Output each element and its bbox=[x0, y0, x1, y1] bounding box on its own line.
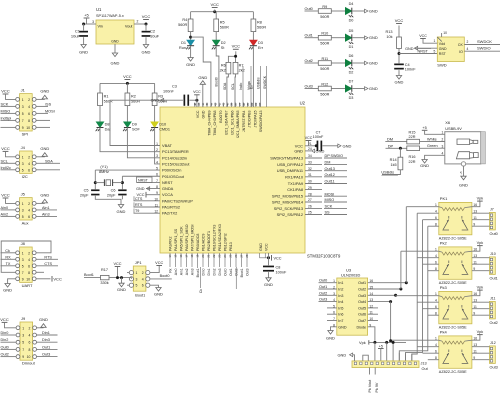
svg-text:4: 4 bbox=[28, 162, 30, 166]
svg-text:J11: J11 bbox=[490, 297, 496, 301]
svg-text:Din1: Din1 bbox=[42, 331, 50, 335]
svg-text:3: 3 bbox=[22, 105, 24, 109]
svg-text:SWDIO/TMS/PA13: SWDIO/TMS/PA13 bbox=[270, 156, 303, 161]
svg-text:TX: TX bbox=[6, 262, 11, 266]
svg-text:SWDIO: SWDIO bbox=[331, 154, 344, 158]
svg-text:34: 34 bbox=[308, 154, 312, 158]
svg-text:5: 5 bbox=[136, 284, 138, 288]
svg-text:J7: J7 bbox=[490, 208, 494, 212]
svg-text:24: 24 bbox=[308, 147, 312, 151]
svg-text:100nF: 100nF bbox=[276, 271, 287, 275]
svg-text:RTS: RTS bbox=[135, 203, 143, 207]
svg-text:Vpk: Vpk bbox=[359, 340, 366, 345]
svg-text:GND: GND bbox=[405, 47, 414, 51]
svg-text:10: 10 bbox=[26, 126, 30, 130]
svg-text:Ain0: Ain0 bbox=[1, 206, 9, 210]
svg-text:UART: UART bbox=[22, 283, 33, 288]
svg-text:GND: GND bbox=[198, 75, 207, 80]
svg-text:5: 5 bbox=[433, 50, 435, 54]
svg-text:19: 19 bbox=[196, 254, 200, 258]
svg-text:SDA: SDA bbox=[45, 159, 53, 163]
svg-text:2: 2 bbox=[442, 138, 444, 142]
svg-text:In4: In4 bbox=[338, 300, 343, 304]
svg-text:6: 6 bbox=[28, 112, 30, 116]
svg-text:3: 3 bbox=[22, 208, 24, 212]
svg-text:White: White bbox=[427, 137, 437, 141]
svg-text:GND: GND bbox=[338, 352, 347, 357]
svg-text:8MHz: 8MHz bbox=[99, 170, 109, 174]
svg-text:Pk2: Pk2 bbox=[440, 241, 448, 246]
svg-text:VCC: VCC bbox=[1, 192, 10, 197]
svg-text:Out0: Out0 bbox=[223, 268, 227, 275]
svg-text:I2C1_SCL/PB6: I2C1_SCL/PB6 bbox=[230, 110, 234, 134]
svg-text:Err: Err bbox=[249, 84, 253, 90]
svg-text:10uF: 10uF bbox=[71, 34, 81, 39]
svg-text:4: 4 bbox=[442, 152, 444, 156]
svg-text:PA7/SPI1_MOSI: PA7/SPI1_MOSI bbox=[191, 225, 195, 252]
svg-text:GND: GND bbox=[294, 148, 303, 153]
svg-text:Vpk: Vpk bbox=[477, 330, 484, 334]
svg-text:R9: R9 bbox=[322, 5, 327, 9]
svg-text:MISO: MISO bbox=[1, 109, 11, 113]
svg-text:GND: GND bbox=[117, 287, 126, 292]
svg-text:6: 6 bbox=[28, 215, 30, 219]
svg-text:25: 25 bbox=[229, 254, 233, 258]
svg-text:SCK: SCK bbox=[1, 102, 9, 106]
svg-text:10uF: 10uF bbox=[150, 34, 160, 39]
svg-text:SCL: SCL bbox=[231, 83, 235, 90]
svg-text:Vdd: Vdd bbox=[439, 42, 445, 46]
svg-text:4: 4 bbox=[333, 298, 335, 302]
svg-text:2: 2 bbox=[28, 155, 30, 159]
svg-text:Pk Vout: Pk Vout bbox=[368, 380, 372, 393]
svg-text:GND: GND bbox=[369, 35, 378, 40]
svg-text:SDA: SDA bbox=[223, 82, 227, 90]
svg-text:Out1: Out1 bbox=[229, 268, 233, 275]
svg-text:D6: D6 bbox=[349, 54, 354, 58]
svg-text:14: 14 bbox=[168, 254, 172, 258]
svg-text:3: 3 bbox=[22, 334, 24, 338]
svg-text:6: 6 bbox=[333, 311, 335, 315]
svg-text:MOSI: MOSI bbox=[45, 109, 55, 113]
svg-text:Out3: Out3 bbox=[42, 353, 50, 357]
svg-text:VCC: VCC bbox=[193, 90, 201, 94]
svg-text:1: 1 bbox=[22, 326, 24, 330]
svg-text:SWDIO: SWDIO bbox=[477, 46, 491, 51]
svg-text:D2: D2 bbox=[221, 41, 226, 45]
svg-text:D7: D7 bbox=[349, 80, 354, 84]
svg-text:1: 1 bbox=[22, 98, 24, 102]
svg-text:TX1/PA9: TX1/PA9 bbox=[288, 181, 303, 186]
svg-text:P01/OSCout: P01/OSCout bbox=[162, 174, 185, 179]
svg-text:GND: GND bbox=[439, 47, 447, 51]
svg-text:GND: GND bbox=[369, 86, 378, 91]
svg-text:ULN2003D: ULN2003D bbox=[341, 273, 360, 278]
svg-text:GND: GND bbox=[151, 99, 160, 103]
svg-text:RX1/PA10: RX1/PA10 bbox=[285, 174, 304, 179]
svg-text:NRST: NRST bbox=[138, 178, 149, 182]
svg-text:+5: +5 bbox=[422, 126, 426, 130]
svg-text:16: 16 bbox=[179, 254, 183, 258]
svg-text:30: 30 bbox=[308, 180, 312, 184]
svg-text:VCC: VCC bbox=[265, 243, 269, 251]
svg-text:31: 31 bbox=[308, 173, 312, 177]
svg-text:4: 4 bbox=[28, 258, 30, 262]
svg-text:R10: R10 bbox=[321, 32, 328, 36]
svg-text:D5: D5 bbox=[349, 29, 354, 33]
svg-text:IO: IO bbox=[459, 50, 463, 54]
svg-text:BOOT0: BOOT0 bbox=[219, 111, 223, 123]
svg-text:5: 5 bbox=[22, 215, 24, 219]
svg-text:SWDCK: SWDCK bbox=[263, 75, 267, 89]
svg-text:Out3: Out3 bbox=[305, 84, 313, 88]
svg-text:In7: In7 bbox=[338, 319, 343, 323]
svg-text:Out2: Out2 bbox=[358, 288, 366, 292]
svg-text:USBdis: USBdis bbox=[381, 170, 394, 174]
svg-text:1: 1 bbox=[433, 39, 435, 43]
svg-text:3: 3 bbox=[136, 277, 138, 281]
svg-text:SCL: SCL bbox=[1, 159, 8, 163]
svg-text:Din3: Din3 bbox=[42, 338, 50, 342]
svg-text:100nF: 100nF bbox=[313, 135, 324, 139]
svg-text:VCC: VCC bbox=[53, 276, 62, 281]
svg-text:GND: GND bbox=[343, 143, 352, 148]
svg-text:24: 24 bbox=[223, 254, 227, 258]
svg-text:+5: +5 bbox=[459, 171, 463, 175]
svg-text:PC14/Osc32in: PC14/Osc32in bbox=[162, 155, 187, 160]
svg-text:10k: 10k bbox=[386, 35, 392, 39]
svg-text:PA0/CTS2/WKUP: PA0/CTS2/WKUP bbox=[162, 198, 193, 203]
svg-text:Out: Out bbox=[422, 367, 429, 371]
svg-text:/SS: /SS bbox=[45, 102, 52, 106]
svg-text:D1: D1 bbox=[349, 45, 354, 49]
svg-text:CTS: CTS bbox=[44, 262, 52, 266]
svg-text:Din2: Din2 bbox=[1, 338, 9, 342]
svg-text:29: 29 bbox=[308, 186, 312, 190]
svg-text:Out0: Out0 bbox=[305, 7, 313, 11]
svg-text:2: 2 bbox=[142, 271, 144, 275]
svg-text:R14: R14 bbox=[390, 158, 397, 162]
svg-text:GND: GND bbox=[142, 50, 151, 55]
svg-text:PB12/SPI2: PB12/SPI2 bbox=[224, 233, 228, 251]
svg-text:Ain3: Ain3 bbox=[190, 268, 194, 275]
svg-text:SPI2_SS/PB12: SPI2_SS/PB12 bbox=[277, 212, 303, 217]
svg-text:1k5: 1k5 bbox=[390, 163, 396, 167]
svg-text:Out3: Out3 bbox=[319, 298, 327, 302]
svg-text:IndSpi: IndSpi bbox=[1, 116, 12, 120]
svg-text:Out1: Out1 bbox=[42, 345, 50, 349]
svg-text:D1: D1 bbox=[181, 41, 186, 45]
svg-text:PB13: PB13 bbox=[229, 242, 233, 251]
svg-text:GND: GND bbox=[154, 291, 163, 296]
svg-text:Boot0: Boot0 bbox=[215, 77, 219, 86]
svg-text:Out1: Out1 bbox=[490, 276, 498, 280]
svg-text:PB2/BOOT1: PB2/BOOT1 bbox=[207, 231, 211, 251]
svg-text:JTDI/PA15: JTDI/PA15 bbox=[253, 110, 257, 127]
svg-text:PA3/RX2: PA3/RX2 bbox=[169, 236, 173, 251]
svg-text:GND: GND bbox=[111, 61, 120, 66]
svg-text:VCC: VCC bbox=[0, 317, 9, 322]
svg-text:32: 32 bbox=[258, 102, 262, 106]
svg-text:Vpk: Vpk bbox=[477, 197, 484, 201]
svg-text:VCC: VCC bbox=[419, 34, 427, 38]
svg-text:6: 6 bbox=[142, 284, 144, 288]
svg-text:2: 2 bbox=[28, 98, 30, 102]
svg-text:DM: DM bbox=[387, 137, 393, 142]
svg-text:VCC: VCC bbox=[113, 262, 121, 266]
svg-text:J13: J13 bbox=[421, 362, 427, 366]
svg-text:C6: C6 bbox=[111, 189, 116, 193]
svg-text:C3: C3 bbox=[172, 85, 177, 89]
svg-text:VCC: VCC bbox=[274, 257, 282, 261]
svg-text:Boot1: Boot1 bbox=[84, 273, 94, 277]
svg-text:PA2/TX2: PA2/TX2 bbox=[162, 211, 177, 216]
svg-text:R17: R17 bbox=[101, 268, 108, 272]
svg-text:VCC: VCC bbox=[1, 88, 10, 93]
svg-text:Din/out: Din/out bbox=[22, 361, 36, 366]
svg-text:CMD1: CMD1 bbox=[159, 128, 170, 132]
svg-text:3: 3 bbox=[442, 144, 444, 148]
svg-text:R5: R5 bbox=[220, 21, 225, 25]
svg-text:7: 7 bbox=[22, 348, 24, 352]
svg-text:D9: D9 bbox=[132, 123, 137, 127]
svg-text:R12: R12 bbox=[321, 82, 328, 86]
svg-text:Out1: Out1 bbox=[358, 281, 366, 285]
svg-text:2: 2 bbox=[28, 202, 30, 206]
svg-text:2: 2 bbox=[137, 20, 139, 24]
svg-text:330k: 330k bbox=[100, 281, 108, 285]
svg-text:(Y1): (Y1) bbox=[100, 165, 108, 169]
svg-text:CK1/PA8: CK1/PA8 bbox=[287, 187, 303, 192]
svg-text:27: 27 bbox=[308, 198, 312, 202]
svg-text:J10: J10 bbox=[490, 252, 496, 256]
svg-text:Din2: Din2 bbox=[212, 268, 216, 275]
svg-text:8: 8 bbox=[28, 119, 30, 123]
svg-text:26: 26 bbox=[234, 254, 238, 258]
svg-text:GNDA: GNDA bbox=[162, 186, 174, 191]
svg-text:R11: R11 bbox=[321, 57, 328, 61]
svg-text:22R: 22R bbox=[409, 135, 416, 139]
svg-text:3: 3 bbox=[333, 292, 335, 296]
svg-text:GND: GND bbox=[459, 183, 468, 188]
svg-text:6: 6 bbox=[29, 341, 31, 345]
svg-text:Out2: Out2 bbox=[305, 59, 313, 63]
svg-text:+5: +5 bbox=[379, 344, 383, 348]
svg-text:Boot1: Boot1 bbox=[240, 268, 244, 277]
svg-text:R13: R13 bbox=[386, 30, 393, 34]
svg-text:1: 1 bbox=[22, 202, 24, 206]
svg-text:VCC: VCC bbox=[196, 110, 200, 118]
svg-text:GND: GND bbox=[117, 209, 126, 214]
svg-text:560R: 560R bbox=[320, 15, 329, 19]
svg-text:D0: D0 bbox=[349, 19, 354, 23]
svg-text:Out2: Out2 bbox=[1, 353, 9, 357]
svg-text:Ck: Ck bbox=[5, 249, 10, 253]
svg-text:Out6: Out6 bbox=[358, 313, 366, 317]
svg-text:23: 23 bbox=[218, 254, 222, 258]
svg-text:PA4/SPI1_SS: PA4/SPI1_SS bbox=[174, 228, 178, 251]
svg-text:VCC: VCC bbox=[123, 74, 132, 79]
svg-text:SPI2_MISO/PB14: SPI2_MISO/PB14 bbox=[272, 200, 304, 205]
svg-text:560R: 560R bbox=[320, 67, 329, 71]
svg-text:D2: D2 bbox=[349, 71, 354, 75]
svg-text:C4: C4 bbox=[405, 63, 410, 67]
svg-text:6: 6 bbox=[28, 168, 30, 172]
svg-text:USBdis: USBdis bbox=[257, 77, 261, 89]
svg-text:TIM4_CH3/PB8: TIM4_CH3/PB8 bbox=[213, 111, 217, 136]
svg-text:In5: In5 bbox=[338, 306, 343, 310]
svg-text:Din3: Din3 bbox=[218, 268, 222, 275]
svg-text:15: 15 bbox=[174, 254, 178, 258]
svg-text:28: 28 bbox=[308, 192, 312, 196]
svg-text:TIM4_CH4/PB9: TIM4_CH4/PB9 bbox=[207, 111, 211, 136]
svg-text:Indic: Indic bbox=[239, 82, 243, 90]
svg-text:GND: GND bbox=[136, 187, 145, 191]
svg-text:C5: C5 bbox=[84, 189, 89, 193]
svg-text:27: 27 bbox=[240, 254, 244, 258]
svg-text:RST: RST bbox=[439, 52, 447, 56]
svg-text:R16: R16 bbox=[409, 155, 416, 159]
svg-text:Vin: Vin bbox=[98, 25, 103, 29]
svg-text:X6: X6 bbox=[445, 120, 451, 125]
svg-text:Ain1: Ain1 bbox=[179, 268, 183, 275]
svg-text:5: 5 bbox=[333, 304, 335, 308]
svg-text:Ain1: Ain1 bbox=[42, 206, 50, 210]
svg-text:SWDIO/PA13: SWDIO/PA13 bbox=[259, 111, 263, 133]
svg-text:2k2: 2k2 bbox=[239, 68, 245, 72]
svg-text:SPI: SPI bbox=[22, 131, 28, 136]
svg-text:5: 5 bbox=[22, 341, 24, 345]
svg-text:Ain0: Ain0 bbox=[174, 268, 178, 275]
svg-text:Din0: Din0 bbox=[201, 268, 205, 275]
svg-text:33: 33 bbox=[308, 161, 312, 165]
svg-text:Run: Run bbox=[179, 46, 186, 50]
svg-text:GND: GND bbox=[316, 149, 325, 154]
svg-text:Out3: Out3 bbox=[245, 268, 249, 275]
svg-text:Out4: Out4 bbox=[358, 300, 366, 304]
svg-text:CK: CK bbox=[458, 43, 464, 47]
svg-text:20pF: 20pF bbox=[107, 194, 116, 198]
svg-text:GND: GND bbox=[40, 193, 49, 198]
svg-text:Out3: Out3 bbox=[358, 294, 366, 298]
svg-text:28: 28 bbox=[245, 254, 249, 258]
svg-text:8: 8 bbox=[28, 271, 30, 275]
svg-text:100nF: 100nF bbox=[405, 68, 416, 72]
svg-text:USB_DP/PA12: USB_DP/PA12 bbox=[277, 162, 303, 167]
svg-text:560R: 560R bbox=[220, 26, 229, 30]
svg-text:4: 4 bbox=[28, 208, 30, 212]
svg-text:I2C1_SMBA/PB5: I2C1_SMBA/PB5 bbox=[236, 110, 240, 138]
svg-text:6: 6 bbox=[28, 264, 30, 268]
svg-text:PB0/ADC8: PB0/ADC8 bbox=[196, 234, 200, 251]
svg-text:Vpk: Vpk bbox=[477, 241, 484, 245]
svg-text:GND: GND bbox=[39, 317, 48, 322]
svg-text:Ain2: Ain2 bbox=[1, 212, 9, 216]
svg-text:Out0: Out0 bbox=[1, 345, 9, 349]
svg-text:Out2: Out2 bbox=[319, 291, 327, 295]
svg-text:Pk3: Pk3 bbox=[440, 285, 448, 290]
svg-text:VCC: VCC bbox=[210, 2, 219, 7]
svg-text:Boot0: Boot0 bbox=[160, 274, 170, 278]
svg-text:In3: In3 bbox=[338, 294, 343, 298]
svg-text:RX: RX bbox=[5, 255, 11, 259]
svg-text:7: 7 bbox=[22, 271, 24, 275]
svg-text:4: 4 bbox=[29, 334, 31, 338]
svg-text:Out0: Out0 bbox=[490, 232, 498, 236]
svg-text:22R: 22R bbox=[409, 160, 416, 164]
svg-text:560R: 560R bbox=[320, 93, 329, 97]
svg-text:C7: C7 bbox=[316, 131, 321, 135]
svg-text:PA5/SPI1_SCK: PA5/SPI1_SCK bbox=[180, 226, 184, 251]
svg-text:20pF: 20pF bbox=[80, 194, 89, 198]
svg-text:Out0: Out0 bbox=[319, 279, 327, 283]
svg-text:T9: T9 bbox=[135, 209, 139, 213]
svg-text:R2: R2 bbox=[131, 95, 136, 99]
svg-text:R6: R6 bbox=[221, 63, 226, 67]
svg-text:VCC: VCC bbox=[142, 14, 151, 19]
svg-text:Ain3: Ain3 bbox=[42, 212, 50, 216]
svg-text:SPI2_SCK/PB13: SPI2_SCK/PB13 bbox=[274, 206, 303, 211]
svg-text:VCC: VCC bbox=[155, 261, 163, 265]
svg-text:IndI2c: IndI2c bbox=[1, 166, 11, 170]
svg-text:In1: In1 bbox=[338, 281, 343, 285]
svg-text:10: 10 bbox=[443, 31, 447, 35]
svg-text:VBAT: VBAT bbox=[162, 143, 172, 148]
svg-text:Pk 9V: Pk 9V bbox=[375, 382, 379, 392]
svg-text:U1: U1 bbox=[96, 7, 102, 12]
svg-text:GND: GND bbox=[40, 146, 49, 151]
svg-text:Out2: Out2 bbox=[490, 321, 498, 325]
svg-text:18: 18 bbox=[190, 254, 194, 258]
svg-text:PK1: PK1 bbox=[440, 196, 448, 201]
svg-text:1: 1 bbox=[333, 279, 335, 283]
svg-text:C8: C8 bbox=[276, 266, 281, 270]
svg-text:SPI2_MOSI/PB15: SPI2_MOSI/PB15 bbox=[272, 194, 303, 199]
svg-text:USB_DM/PA11: USB_DM/PA11 bbox=[277, 168, 303, 173]
svg-text:22: 22 bbox=[212, 254, 216, 258]
svg-text:10: 10 bbox=[27, 355, 31, 359]
svg-text:GND: GND bbox=[79, 50, 88, 55]
svg-text:D3: D3 bbox=[349, 96, 354, 100]
svg-text:25: 25 bbox=[308, 211, 312, 215]
svg-text:9: 9 bbox=[22, 355, 24, 359]
svg-text:SP1117WAP-5.x: SP1117WAP-5.x bbox=[96, 14, 124, 18]
svg-text:VCCA: VCCA bbox=[162, 192, 173, 197]
svg-text:560R: 560R bbox=[178, 23, 187, 27]
svg-text:JTDO/PB3: JTDO/PB3 bbox=[248, 110, 252, 127]
svg-text:STM32F103C8T9: STM32F103C8T9 bbox=[307, 254, 341, 259]
svg-text:Out3: Out3 bbox=[490, 365, 498, 369]
svg-text:PA6/SPI1_MISO: PA6/SPI1_MISO bbox=[185, 224, 189, 251]
svg-text:R8: R8 bbox=[257, 21, 262, 25]
svg-text:Err: Err bbox=[258, 46, 264, 50]
svg-text:D8: D8 bbox=[105, 123, 110, 127]
svg-text:20: 20 bbox=[201, 254, 205, 258]
svg-text:In6: In6 bbox=[338, 313, 343, 317]
svg-text:GND: GND bbox=[111, 40, 119, 44]
svg-text:Out1: Out1 bbox=[319, 285, 327, 289]
svg-text:32: 32 bbox=[308, 167, 312, 171]
svg-text:5: 5 bbox=[22, 264, 24, 268]
svg-text:VCC: VCC bbox=[1, 146, 10, 151]
svg-text:3: 3 bbox=[92, 20, 94, 24]
svg-text:VCC: VCC bbox=[305, 136, 313, 140]
svg-text:1: 1 bbox=[442, 131, 444, 135]
svg-text:D3: D3 bbox=[258, 41, 263, 45]
svg-text:D4: D4 bbox=[349, 2, 354, 6]
svg-text:SWDCK: SWDCK bbox=[477, 39, 492, 44]
svg-text:560R: 560R bbox=[257, 26, 266, 30]
